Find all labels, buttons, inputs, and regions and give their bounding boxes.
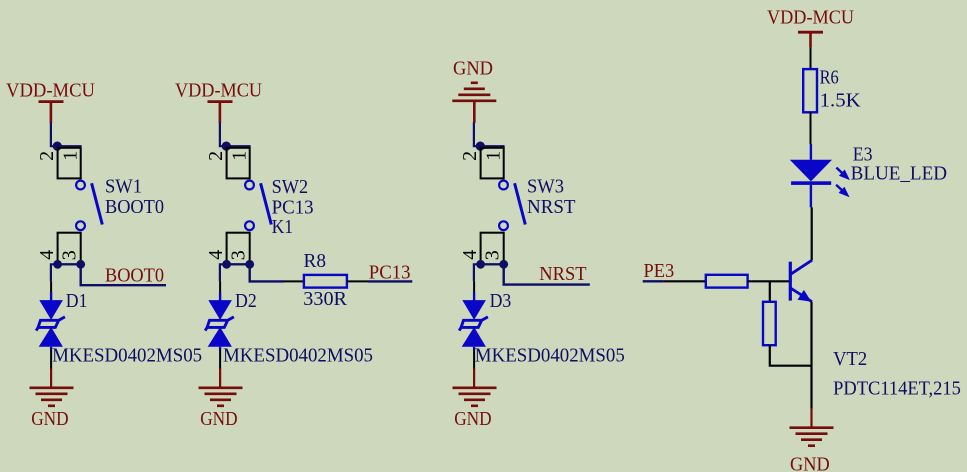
svg-text:R6: R6 [820,67,839,89]
diode pin lead bottom [473,347,475,350]
diode pin lead top [50,281,52,292]
svg-text:VDD-MCU: VDD-MCU [175,80,263,102]
svg-text:MKESD0402MS05: MKESD0402MS05 [52,345,202,367]
diode pin lead top [473,281,475,292]
switch SW1 contact circle top [76,181,85,190]
svg-text:2: 2 [36,151,58,161]
svg-text:MKESD0402MS05: MKESD0402MS05 [223,345,373,367]
TVS diode bottom triangle [462,327,486,347]
wire power drop to switch SW3 [474,122,505,146]
wire power drop to switch SW2 [220,122,251,146]
wire LED to VT2 collector [811,207,813,260]
svg-text:4: 4 [36,250,58,260]
svg-text:VDD-MCU: VDD-MCU [767,7,855,29]
TVS diode bottom triangle [208,327,232,347]
svg-text:SW1: SW1 [105,175,142,197]
svg-text:2: 2 [205,151,227,161]
resistor R6 pin lead bottom [810,112,812,144]
ground symbol (circuit 4) [790,426,834,429]
wire across switch SW1 pins 4-3 [58,263,81,265]
ground stub [50,369,52,389]
node junction at SW1 pin 4 [53,260,62,269]
LED E3 cathode lead [810,185,812,207]
svg-text:3: 3 [227,250,249,260]
switch SW3 body top box (pins 2,1) [481,148,504,179]
svg-text:4: 4 [459,250,481,260]
ground symbol [30,386,74,389]
node junction at SW3 pin 4 [476,260,485,269]
svg-text:2: 2 [459,151,481,161]
wire across switch SW3 pins 4-3 [481,263,504,265]
svg-text:BLUE_LED: BLUE_LED [851,163,947,185]
LED E3 cathode bar [791,181,831,185]
switch SW3 contact circle bottom [499,221,508,230]
wire SW2 pin3 to R8 [250,264,284,281]
svg-text:330R: 330R [303,288,347,310]
switch SW1 body bottom box (pins 4,3) [58,233,81,265]
svg-text:GND: GND [454,408,491,430]
VT2 base-emitter bias resistor body [763,302,776,345]
TVS diode zener bar [36,317,65,331]
svg-text:SW2: SW2 [272,176,309,198]
wire PE3 to base resistor [663,280,705,282]
svg-text:MKESD0402MS05: MKESD0402MS05 [475,345,625,367]
svg-text:GND: GND [200,408,237,430]
wire across switch SW2 pins 4-3 [227,263,250,265]
ground symbol [453,386,497,389]
switch SW1 contact circle bottom [76,221,85,230]
svg-text:D1: D1 [66,290,88,312]
TVS diode zener bar [459,317,488,331]
node junction at SW1 pin 3 [76,260,85,269]
svg-text:1: 1 [59,151,81,161]
TVS diode top triangle [462,300,486,320]
wire tap down to bias resistor [769,281,771,302]
wire net NRST [504,264,590,284]
LED E3 emission arrow 1 [836,168,850,181]
svg-text:VDD-MCU: VDD-MCU [6,80,96,102]
wire from SW1 pin 4 down to ESD diode [51,264,58,281]
switch SW2 lever [261,183,272,224]
diode pin lead bottom [219,347,221,350]
resistor R8 pin 1 lead [284,280,304,282]
node junction at SW2 pin 4 [222,260,231,269]
svg-text:K1: K1 [272,216,294,238]
ground stub [473,369,475,389]
switch SW2 body bottom box (pins 4,3) [227,233,250,265]
switch SW2 body top box (pins 2,1) [227,148,250,179]
TVS diode zener bar [205,317,234,331]
svg-text:GND: GND [453,58,493,80]
node junction at SW3 pin 3 [499,260,508,269]
TVS diode top triangle [208,300,232,320]
svg-text:PC13: PC13 [272,196,314,218]
diode pin lead top [219,281,221,292]
svg-text:PDTC114ET,215: PDTC114ET,215 [833,378,961,400]
TVS diode bottom triangle [39,327,63,347]
svg-text:1: 1 [228,151,250,161]
LED E3 emission arrow 2 [836,185,850,198]
svg-text:VT2: VT2 [833,348,867,370]
VT2 base series resistor body [706,275,748,288]
node junction at SW2 pin 2 [222,142,231,151]
TVS diode top triangle [39,300,63,320]
svg-text:SW3: SW3 [527,175,564,197]
wire from SW3 pin 4 down to ESD diode [474,264,481,281]
LED E3 triangle [790,160,832,182]
wire net BOOT0 [81,264,166,285]
svg-text:D2: D2 [235,290,257,312]
LED E3 anode lead [810,144,812,160]
resistor R6 body [803,69,817,112]
node junction at SW2 pin 3 [245,260,254,269]
svg-text:1: 1 [482,151,504,161]
switch SW3 contact circle top [499,181,508,190]
switch SW1 body top box (pins 2,1) [58,148,81,179]
ground symbol [199,386,243,389]
node junction at SW3 pin 2 [476,142,485,151]
wire net PE3 [643,280,664,282]
resistor R8 body [304,275,347,288]
svg-text:BOOT0: BOOT0 [105,196,164,218]
svg-text:NRST: NRST [539,263,586,285]
svg-text:PE3: PE3 [644,260,675,282]
wire VT2 emitter to ground [810,302,812,409]
svg-text:GND: GND [31,408,68,430]
ground stub [219,369,221,389]
svg-text:3: 3 [58,250,80,260]
wire bias resistor bottom [770,345,812,366]
svg-text:4: 4 [205,250,227,260]
resistor R6 pin lead top [810,47,812,69]
svg-text:BOOT0: BOOT0 [105,265,164,287]
wire from SW2 pin 4 down to ESD diode [220,264,227,281]
switch SW3 lever [515,183,526,224]
resistor R8 pin 2 lead [347,280,369,282]
switch SW1 lever [92,183,103,224]
transistor VT2 collector [790,260,812,274]
wire net PC13 [369,280,413,282]
wire base resistor to VT2 base [748,280,791,282]
svg-text:1.5K: 1.5K [820,89,862,111]
svg-text:PC13: PC13 [369,262,411,284]
switch SW2 contact circle bottom [245,221,254,230]
switch SW3 body bottom box (pins 4,3) [481,233,504,265]
svg-text:R8: R8 [304,250,327,272]
node junction at SW1 pin 2 [53,142,62,151]
svg-text:3: 3 [481,250,503,260]
svg-text:D3: D3 [490,290,512,312]
diode pin lead bottom [50,347,52,350]
svg-text:GND: GND [790,454,830,472]
ground stub (circuit 4) [810,409,812,428]
transistor VT2 emitter with arrow [790,288,812,302]
svg-text:NRST: NRST [527,196,576,218]
switch SW2 contact circle top [245,181,254,190]
transistor VT2 base bar [789,262,792,301]
wire power drop to switch SW1 [51,122,82,146]
